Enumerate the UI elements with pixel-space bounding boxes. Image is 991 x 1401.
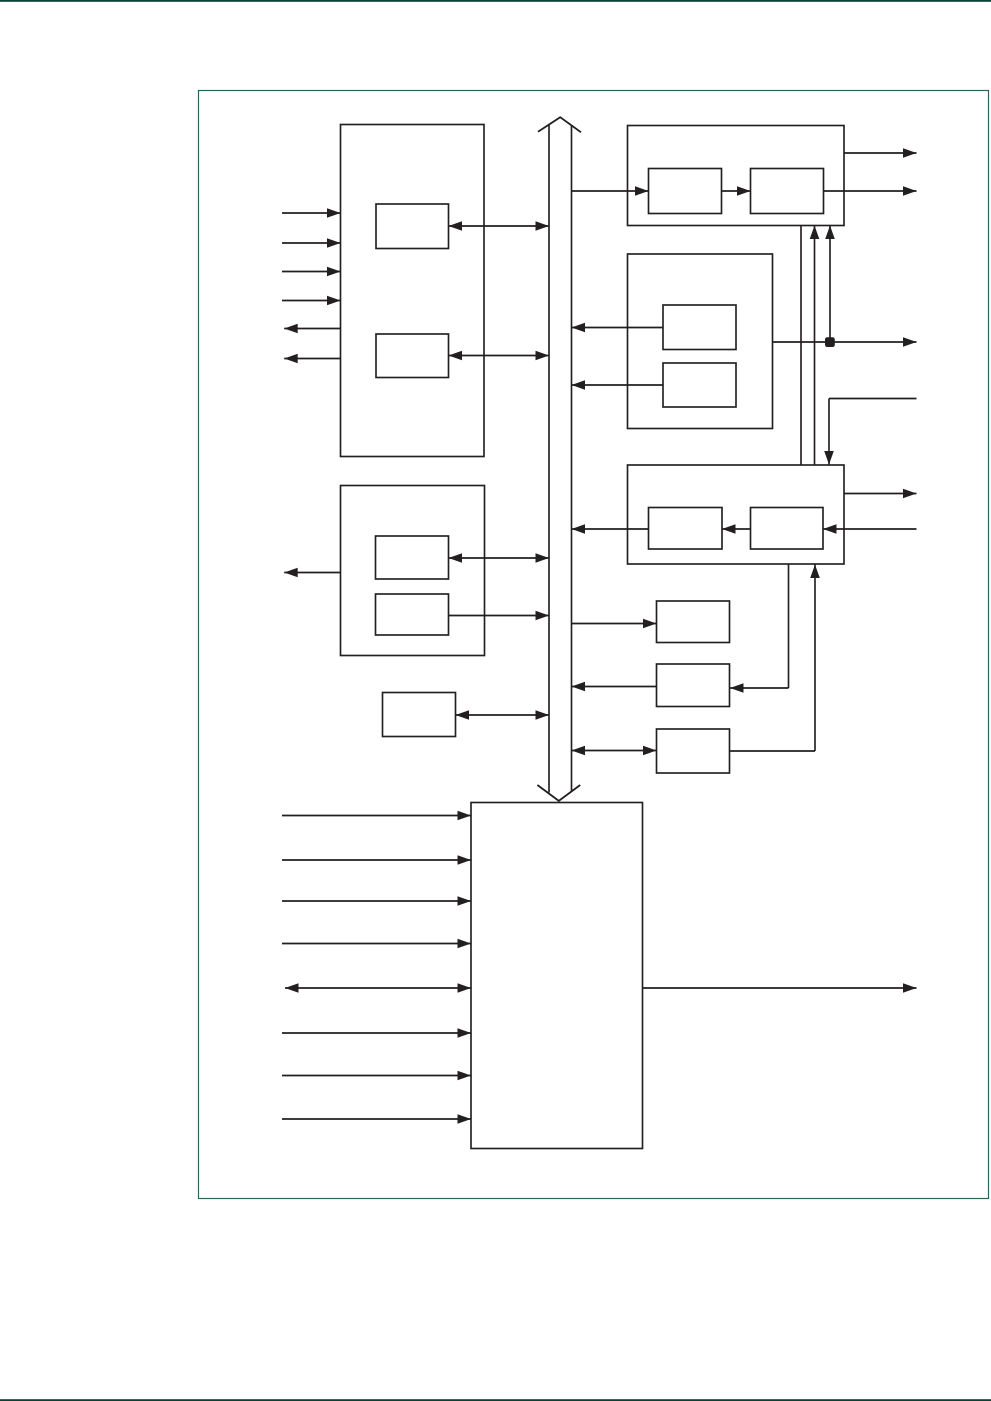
wire D bottom to G2 — [730, 564, 789, 693]
block A outline (top-left) — [341, 125, 485, 457]
wire B1 to B2 — [722, 186, 751, 196]
external wire into D2 — [823, 524, 917, 534]
input wire 1 into block H — [282, 811, 471, 821]
page bottom rule — [0, 1399, 991, 1401]
output wire from block B — [844, 148, 917, 158]
wire C2 to bus — [572, 380, 664, 390]
block B outline (top-right) — [628, 126, 845, 226]
external wire into D top — [824, 399, 916, 466]
output wire from B2 — [824, 186, 917, 196]
output wire from block E — [284, 568, 340, 578]
wire G3 to D bottom — [730, 564, 820, 751]
wire into block H (bidir) — [285, 983, 471, 993]
wire D2 to D1 — [722, 524, 751, 534]
output wire from block C — [773, 337, 917, 347]
block C outline (right-middle) — [628, 254, 773, 429]
block G1 box — [657, 601, 730, 643]
block G3 box — [657, 729, 730, 773]
block A2 sub-box — [376, 334, 449, 378]
input wire 7 into block H — [282, 1071, 471, 1081]
block E outline (left-middle) — [341, 486, 485, 656]
input wire 4 into block H — [282, 939, 471, 949]
input wire 4 into block A — [282, 296, 341, 306]
block E2 sub-box — [376, 594, 449, 635]
bus left rail — [548, 125, 550, 793]
wire D1 to bus — [572, 524, 649, 534]
wire D to B (plain riser) — [800, 226, 802, 466]
input wire 1 into block A — [282, 208, 341, 218]
input wire 2 into block H — [282, 855, 471, 865]
block D1 sub-box — [649, 508, 723, 550]
input wire 2 into block A — [282, 238, 341, 248]
block A1 sub-box — [376, 204, 449, 249]
input wire 6 into block H — [282, 1028, 471, 1038]
wire G3 to bus (bidir) — [572, 746, 657, 756]
input wire 3 into block H — [282, 896, 471, 906]
wire F to bus (bidir) — [456, 710, 550, 720]
wire D to B (arrow riser) — [810, 226, 820, 466]
block B2 sub-box — [751, 169, 824, 214]
page top rule — [0, 0, 991, 2]
junction dot — [825, 337, 835, 347]
output wire 1 from block A — [284, 324, 340, 334]
block D2 sub-box — [751, 508, 824, 550]
wire G2 to bus — [572, 682, 657, 692]
output wire 2 from block A — [284, 354, 340, 364]
bus bottom chevron — [537, 785, 580, 801]
wire A2 to bus (bidir) — [449, 351, 550, 361]
block B1 sub-box — [649, 169, 722, 214]
wire bus to B1 — [572, 186, 649, 196]
block C2 sub-box — [663, 363, 736, 407]
wire E1 to bus (bidir) — [449, 553, 550, 563]
block G2 box — [657, 664, 730, 707]
figure frame — [199, 91, 989, 1199]
wire bus to G1 — [572, 619, 657, 629]
bus right rail — [571, 125, 573, 792]
wire A1 to bus (bidir) — [449, 221, 550, 231]
block D outline (lower-right) — [628, 465, 845, 564]
input wire 3 into block A — [282, 267, 341, 277]
block F box — [383, 693, 456, 737]
bus top chevron — [538, 117, 581, 132]
wire E2 to bus — [449, 611, 550, 621]
wire C1 to bus — [572, 323, 664, 333]
input wire 8 into block H — [282, 1114, 471, 1124]
wire junction to B riser — [825, 226, 835, 343]
block H outline (bottom) — [471, 803, 643, 1149]
output wire from block H — [643, 983, 917, 993]
block E1 sub-box — [376, 536, 449, 579]
block C1 sub-box — [663, 305, 736, 350]
output wire from block D — [844, 489, 917, 499]
